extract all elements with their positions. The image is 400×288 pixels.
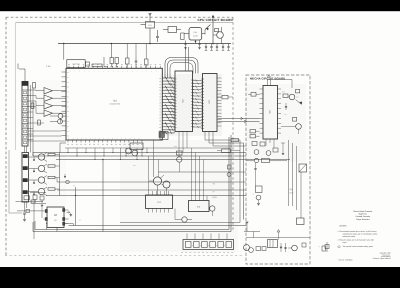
transistor Q7 pair — [126, 148, 138, 156]
transistor Q2 — [29, 164, 48, 173]
IC1 corner label block — [159, 132, 165, 138]
capacitor C1 C2 pair — [110, 44, 119, 67]
resistor R3 — [126, 44, 130, 69]
strip feed wires — [187, 234, 227, 240]
resistor R5 — [33, 83, 36, 89]
svg-text:K0: K0 — [67, 111, 69, 113]
svg-text:NOTES:: NOTES: — [340, 225, 348, 228]
IC1 top pin numbers — [68, 63, 161, 66]
IC3 left pin ticks — [201, 79, 204, 129]
svg-text:A: A — [79, 70, 80, 72]
resistor R10 — [48, 176, 60, 178]
svg-text:A: A — [84, 70, 85, 72]
note 1 text — [338, 230, 378, 238]
resistor R1 small box — [86, 62, 90, 66]
svg-text:S: S — [90, 138, 91, 140]
svg-text:A: A — [103, 70, 104, 72]
transistor Q11 — [209, 206, 215, 216]
motor bottom wire — [57, 224, 246, 232]
resistor R14 — [293, 118, 297, 122]
resonator input cap — [181, 33, 184, 40]
capacitor C14 — [156, 30, 159, 42]
CN2 bottom wires — [25, 202, 27, 212]
bottom connector strip CN3 — [183, 240, 234, 250]
wires CN1 lower routing — [28, 85, 66, 156]
IC4 servo box — [146, 191, 173, 213]
svg-text:A: A — [151, 70, 152, 72]
ground G1 top — [148, 14, 151, 22]
CPU board outline (faint) — [16, 23, 234, 150]
svg-text:A: A — [132, 70, 133, 72]
svg-text:R21: R21 — [148, 24, 151, 27]
svg-text:A: A — [122, 70, 123, 72]
frame dash under strip — [181, 251, 234, 253]
svg-text:A: A — [89, 70, 90, 72]
part number footer — [339, 258, 353, 261]
svg-text:4.5V: 4.5V — [46, 65, 51, 68]
IC reset box — [163, 27, 181, 33]
svg-text:(M): (M) — [290, 188, 293, 191]
crystal X1 ceramic resonator — [184, 28, 205, 44]
resistor R8 — [48, 153, 60, 155]
mecha electrolytic C10 — [319, 245, 326, 251]
svg-text:K5: K5 — [67, 136, 69, 138]
IC3 right pin stubs — [217, 78, 222, 126]
below IC6 cluster — [252, 139, 285, 155]
imprint block right — [373, 252, 391, 260]
wire CN1 top stub — [18, 64, 25, 82]
svg-text:The symbol mark indicates safe: The symbol mark indicates safety parts. — [343, 245, 374, 248]
transistor Q8 — [149, 175, 164, 195]
op-amp A4 — [44, 110, 53, 116]
svg-text:K1: K1 — [67, 77, 69, 79]
bus wire C — [46, 195, 246, 197]
mecha bottom transistor Q15 — [288, 245, 297, 251]
svg-text:K4: K4 — [67, 92, 69, 94]
svg-text:S: S — [72, 138, 73, 140]
resistor R18 — [256, 186, 263, 193]
IC1 bottom pin stubs — [68, 140, 142, 142]
IC2 LCD driver body — [175, 71, 193, 132]
svg-text:CX1: CX1 — [194, 31, 198, 34]
capacitor C16 — [198, 41, 201, 49]
wire bundle IC2 to IC3 — [193, 79, 203, 128]
IC1 inner pin labels top — [70, 70, 157, 72]
bus wire E — [65, 147, 230, 149]
diode D7 arrow — [296, 100, 303, 105]
loop wire double right — [33, 135, 231, 232]
mecha bottom rail — [246, 237, 310, 239]
svg-text:S: S — [81, 138, 82, 140]
note 3 diamond text — [338, 245, 374, 248]
svg-text:S: S — [125, 138, 126, 140]
mecha label smudges — [282, 91, 299, 117]
bus wire B — [33, 155, 246, 157]
IC1 bottom pin labels row — [67, 143, 143, 149]
svg-text:K1: K1 — [67, 116, 69, 118]
resistor R9 — [48, 165, 60, 167]
left edge wire — [9, 150, 22, 213]
motor label M2 — [290, 188, 295, 194]
svg-text:S: S — [94, 138, 95, 140]
base caps CN2 — [33, 157, 35, 195]
svg-text:K7: K7 — [67, 106, 69, 108]
mecha bottom box B1 — [268, 240, 278, 248]
svg-text:S: S — [116, 138, 117, 140]
svg-text:MTR: MTR — [290, 191, 295, 194]
svg-text:K2: K2 — [67, 82, 69, 84]
IC6 mecha driver body — [263, 86, 278, 140]
CPU CIRCUIT BOARD label — [197, 18, 233, 22]
transistor Q12 — [288, 94, 295, 100]
bus wire D — [56, 159, 290, 161]
svg-text:K4: K4 — [67, 131, 69, 133]
connector CN2 — [22, 153, 29, 203]
IC1 top pin stubs — [69, 66, 160, 69]
resistor R22 — [215, 29, 219, 32]
leaf switch SW1 — [299, 164, 307, 172]
svg-text:S: S — [134, 138, 135, 140]
resistor R16 R17 pair — [250, 130, 260, 138]
vertical feeds to IC4 — [149, 140, 159, 192]
svg-text:K2: K2 — [67, 121, 69, 123]
capacitor C7 small — [64, 174, 81, 222]
svg-text:Player Recorder: Player Recorder — [356, 218, 370, 221]
resistor R13 — [296, 90, 300, 93]
svg-text:S: S — [99, 138, 100, 140]
svg-text:A: A — [108, 70, 109, 72]
bus wire A — [33, 153, 246, 157]
svg-text:CPU CIRCUIT BOARD: CPU CIRCUIT BOARD — [197, 18, 233, 22]
B+ supply arrow — [212, 15, 214, 43]
IC6 power wires top — [268, 75, 293, 89]
capacitor C9 electrolytic — [253, 193, 261, 205]
connector CN1 — [22, 82, 28, 147]
diode D5 — [205, 25, 211, 35]
mecha bottom supply arrow — [277, 230, 280, 240]
IC3 LCD driver body — [203, 74, 218, 132]
motor right arrow and ground — [67, 211, 73, 216]
svg-text:S: S — [130, 138, 131, 140]
IC2 bottom wires — [179, 132, 187, 157]
resistor R7 — [38, 120, 41, 125]
mecha vertical wires — [289, 140, 302, 218]
IC6 right pins — [278, 89, 282, 133]
mecha bottom resistors — [256, 247, 266, 251]
mecha bottom row transistor Q14 — [244, 245, 254, 253]
mecha ground lower left — [244, 222, 260, 238]
svg-text:K5: K5 — [67, 97, 69, 99]
mecha component right — [325, 242, 329, 252]
IC2 right pin ticks — [191, 80, 194, 127]
box below switch — [297, 218, 305, 225]
op-amp A1 — [44, 88, 53, 94]
svg-text:Part No. XRD8832: Part No. XRD8832 — [339, 258, 353, 261]
mecha bottom resistor R19 — [302, 243, 306, 247]
wire vertical x103 — [76, 159, 104, 232]
page dashed border frame — [5, 17, 242, 256]
transistor Q4 — [29, 187, 48, 196]
op-amp A3 — [44, 103, 53, 109]
resistor R15 left of IC6 — [248, 93, 260, 97]
svg-text:A: A — [142, 70, 143, 72]
wire vertical x75 — [74, 185, 77, 226]
wires CN1 to CN2 — [25, 146, 27, 153]
svg-text:chart.: chart. — [343, 241, 348, 244]
MECHA board dashed outline — [246, 75, 310, 264]
svg-text:K3: K3 — [67, 126, 69, 128]
svg-text:A: A — [74, 70, 75, 72]
capacitor C5 — [23, 213, 26, 221]
scan haze overlays — [160, 74, 222, 136]
svg-text:A: A — [156, 70, 157, 72]
filter box FL1 — [130, 143, 143, 150]
svg-text:S: S — [77, 138, 78, 140]
switch labels — [213, 182, 217, 199]
svg-text:A: A — [94, 70, 95, 72]
IC1 left pin stubs — [62, 72, 67, 136]
motor left pins — [44, 210, 48, 221]
svg-text:A: A — [70, 70, 71, 72]
resistor R23 — [217, 149, 240, 152]
svg-text:A: A — [98, 70, 99, 72]
op-amp A2 — [44, 95, 53, 101]
svg-text:otherwise noted.: otherwise noted. — [343, 235, 356, 238]
svg-text:S: S — [108, 138, 109, 140]
IC1 microcontroller body — [66, 68, 162, 140]
svg-text:S: S — [138, 138, 139, 140]
capacitor C3 — [135, 44, 138, 69]
capacitor C6 cluster — [16, 193, 47, 240]
rail caps cluster — [205, 44, 230, 51]
diode D6 photo — [175, 209, 192, 223]
title block text — [353, 210, 372, 221]
svg-text:MN15823TEB: MN15823TEB — [110, 102, 121, 105]
wires CN1 to op-amps — [28, 90, 66, 140]
capacitor C8 — [285, 103, 287, 110]
resistor R11 — [48, 188, 60, 190]
key matrix box S1 — [67, 60, 85, 68]
capacitor C18 — [227, 165, 231, 176]
IC6 left pins — [260, 89, 264, 133]
bus wire F — [158, 171, 246, 173]
wire L bend — [104, 57, 108, 67]
resistor R21 box — [141, 22, 155, 44]
svg-text:K3: K3 — [67, 87, 69, 89]
resistor R4 — [145, 44, 149, 69]
svg-text:A: A — [118, 70, 119, 72]
svg-text:S: S — [112, 138, 113, 140]
resistor R24 right column — [217, 95, 233, 99]
component cluster below bundle — [160, 132, 168, 140]
svg-text:S: S — [103, 138, 104, 140]
mecha mid chain — [246, 158, 287, 186]
power rail wire — [58, 43, 231, 60]
transistor Q5 — [50, 114, 63, 123]
label 4.5V — [46, 65, 51, 68]
svg-text:S: S — [68, 138, 69, 140]
motor right pins — [63, 209, 69, 226]
svg-text:A: A — [137, 70, 138, 72]
motor M1 box — [47, 207, 64, 228]
bus wire G — [55, 178, 246, 191]
component chain center — [177, 151, 183, 172]
mecha bottom caps — [280, 243, 287, 252]
svg-text:A: A — [113, 70, 114, 72]
svg-text:4.19M: 4.19M — [193, 35, 198, 38]
IC1 inner pin labels left — [67, 72, 69, 138]
svg-text:A: A — [127, 70, 128, 72]
capacitor C15 — [184, 41, 187, 49]
IC5 box — [189, 196, 210, 212]
resistor R2 horizontal — [92, 64, 102, 66]
wires into MECHA — [218, 117, 260, 123]
IC1 bottom left stub — [60, 143, 66, 153]
transistor Q1 — [29, 153, 48, 162]
transistor Q9 — [162, 181, 170, 195]
svg-text:Stereo Radio Cassette: Stereo Radio Cassette — [353, 210, 372, 213]
wire bundle IC1 to IC2 — [162, 77, 175, 135]
svg-text:Portable Cassette: Portable Cassette — [355, 215, 370, 218]
svg-text:S: S — [121, 138, 122, 140]
transistor Q10 — [213, 27, 223, 44]
transistor Q3 — [29, 176, 48, 185]
svg-text:K6: K6 — [67, 101, 69, 103]
IC1 inner pin labels bottom — [68, 138, 139, 140]
bus arc over ICs — [165, 47, 198, 78]
IC2 left pin ticks — [174, 79, 177, 128]
label smudges center — [118, 145, 177, 167]
NOTES heading — [340, 225, 348, 228]
collector bus wire — [59, 153, 61, 196]
transistor Q6 — [28, 119, 62, 131]
resistor R6 — [31, 103, 34, 109]
svg-text:A: A — [146, 70, 147, 72]
svg-text:Model No.: Model No. — [359, 213, 368, 216]
IC1 bottom drop wires — [67, 148, 147, 160]
svg-text:S: S — [86, 138, 87, 140]
IC1 inner pin labels right — [159, 78, 161, 132]
transistor Q13 — [281, 124, 301, 134]
MECHA CIRCUIT BOARD label — [250, 77, 285, 81]
note 2 text — [338, 239, 375, 245]
vertical feeds to IC5 — [192, 148, 204, 196]
resistor R12 — [283, 94, 288, 97]
IC3 bottom wires to loop — [120, 132, 247, 223]
